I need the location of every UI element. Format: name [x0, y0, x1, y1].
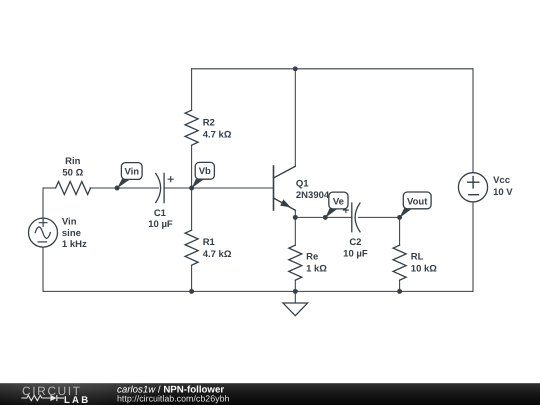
wire collector to top rail — [294, 69, 296, 167]
resistor RL — [393, 245, 406, 280]
svg-text:RL: RL — [411, 252, 424, 263]
svg-text:10 kΩ: 10 kΩ — [411, 263, 437, 274]
node Vout — [397, 215, 402, 220]
svg-text:http://circuitlab.com/cb26ybh: http://circuitlab.com/cb26ybh — [117, 394, 230, 404]
wire emitter node to C2 — [295, 216, 352, 218]
svg-text:Vb: Vb — [199, 166, 211, 177]
transistor Q1 emitter — [274, 198, 296, 210]
wire node Vb to R1 — [191, 188, 193, 230]
resistor Re — [289, 245, 302, 280]
wire emitter node to Re — [294, 217, 296, 245]
node RL bottom — [397, 289, 402, 294]
resistor R1 — [185, 230, 198, 265]
resistor Rin — [56, 182, 91, 195]
wire Vin source to Rin — [43, 187, 56, 189]
wire RL to bottom rail — [399, 280, 401, 291]
wire top rail to R2 — [191, 69, 193, 110]
flag Vb — [192, 162, 215, 188]
svg-text:C2: C2 — [349, 237, 361, 248]
wire top rail — [192, 68, 473, 70]
svg-text:Q1: Q1 — [296, 178, 309, 189]
svg-text:10 µF: 10 µF — [343, 249, 368, 260]
voltage source Vin (sine) — [29, 218, 58, 247]
svg-text:1 kHz: 1 kHz — [62, 239, 87, 250]
svg-text:Rin: Rin — [65, 156, 81, 167]
flag Ve — [325, 192, 348, 218]
flag Vin — [117, 163, 142, 189]
svg-text:50 Ω: 50 Ω — [62, 167, 83, 178]
svg-text:Ve: Ve — [333, 197, 344, 208]
wire C1 to node Vb — [164, 187, 192, 189]
svg-text:sine: sine — [62, 228, 81, 239]
svg-text:Vin: Vin — [124, 166, 139, 177]
wire emitter to node — [294, 210, 296, 217]
node Vin — [115, 186, 120, 191]
wire C2 to node Vout — [359, 216, 400, 218]
svg-text:4.7 kΩ: 4.7 kΩ — [203, 249, 232, 260]
wire Rin to C1 — [90, 187, 159, 189]
node collector/top rail — [293, 66, 298, 71]
wire right rail lower — [472, 202, 474, 291]
transistor Q1 emitter arrow — [280, 199, 291, 207]
wire node Vout to RL — [399, 217, 401, 245]
svg-text:2N3904: 2N3904 — [296, 190, 330, 201]
wire bottom rail — [43, 290, 473, 292]
wire right rail upper — [472, 69, 474, 173]
node R1 bottom — [189, 289, 194, 294]
node Ve — [323, 215, 328, 220]
svg-text:R2: R2 — [203, 118, 215, 129]
wire left column upper — [42, 188, 44, 218]
svg-text:Vin: Vin — [62, 217, 77, 228]
svg-text:4.7 kΩ: 4.7 kΩ — [203, 130, 232, 141]
wire node Vb to base — [192, 187, 274, 189]
svg-text:LAB: LAB — [64, 395, 90, 405]
resistor R2 — [185, 110, 198, 145]
flag Vout — [400, 192, 431, 218]
voltage source Vcc — [458, 173, 487, 202]
node emitter — [293, 215, 298, 220]
transistor Q1 — [273, 166, 275, 210]
wire left column lower — [42, 247, 44, 291]
svg-text:1 kΩ: 1 kΩ — [306, 263, 327, 274]
wire R1 to bottom rail — [191, 265, 193, 291]
node Vb — [189, 186, 194, 191]
logo resistor-diode line — [21, 395, 64, 401]
wire Re to bottom rail — [294, 280, 296, 291]
wire R2 to node Vb — [191, 145, 193, 188]
svg-text:Vcc: Vcc — [493, 175, 510, 186]
svg-text:10 µF: 10 µF — [148, 219, 173, 230]
svg-text:10 V: 10 V — [493, 187, 513, 198]
node Re bottom — [293, 289, 298, 294]
capacitor C2 — [351, 203, 353, 232]
ground — [294, 291, 296, 303]
capacitor C1 — [156, 173, 161, 202]
svg-text:Re: Re — [306, 252, 318, 263]
svg-text:Vout: Vout — [407, 197, 428, 208]
svg-text:C1: C1 — [154, 208, 167, 219]
svg-text:R1: R1 — [203, 237, 216, 248]
